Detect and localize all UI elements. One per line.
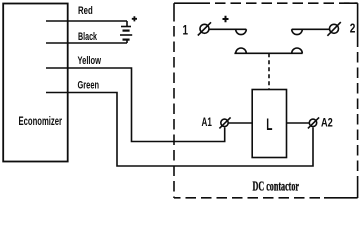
svg-text:1: 1 [183, 22, 189, 37]
svg-text:A1: A1 [202, 115, 213, 129]
svg-text:A2: A2 [321, 115, 333, 129]
svg-text:2: 2 [350, 21, 356, 35]
svg-text:Red: Red [78, 5, 93, 17]
svg-text:L: L [266, 115, 272, 134]
svg-text:Economizer: Economizer [19, 114, 63, 128]
svg-text:Yellow: Yellow [78, 55, 102, 67]
svg-text:DC contactor: DC contactor [253, 180, 300, 195]
svg-text:Green: Green [78, 80, 100, 92]
svg-text:Black: Black [78, 31, 98, 43]
